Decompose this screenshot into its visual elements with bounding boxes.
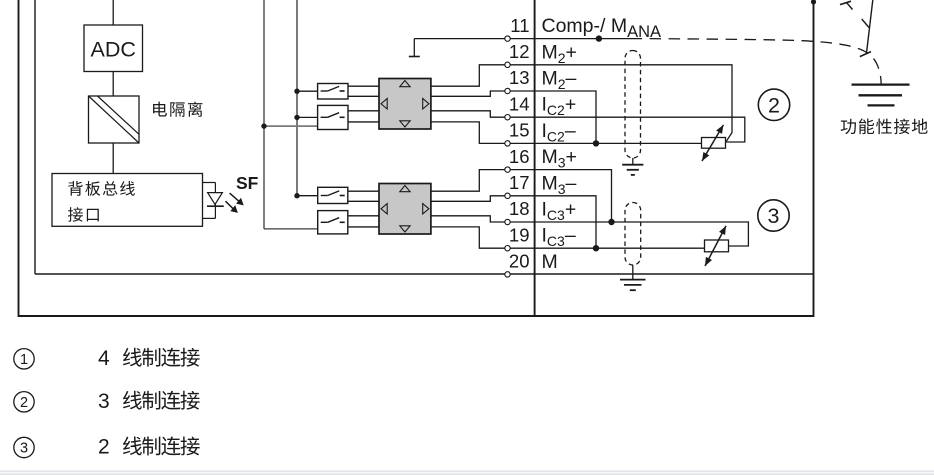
svg-text:3: 3 — [98, 390, 110, 413]
svg-text:12: 12 — [509, 41, 530, 62]
svg-text:17: 17 — [509, 172, 530, 193]
svg-text:19: 19 — [509, 224, 530, 245]
svg-text:SF: SF — [236, 173, 259, 193]
svg-text:2: 2 — [20, 395, 28, 411]
svg-text:16: 16 — [509, 146, 530, 167]
svg-text:11: 11 — [510, 15, 529, 36]
svg-text:20: 20 — [509, 251, 530, 272]
svg-text:14: 14 — [509, 93, 530, 114]
svg-text:3: 3 — [768, 204, 780, 228]
svg-text:1: 1 — [20, 352, 28, 368]
svg-text:ADC: ADC — [90, 38, 135, 62]
svg-text:M: M — [542, 251, 558, 273]
svg-text:2: 2 — [98, 436, 110, 459]
svg-text:3: 3 — [20, 441, 28, 457]
svg-text:4: 4 — [98, 347, 110, 370]
svg-text:15: 15 — [509, 120, 530, 141]
svg-text:13: 13 — [509, 67, 530, 88]
svg-text:18: 18 — [509, 198, 530, 219]
svg-text:2: 2 — [768, 93, 780, 117]
